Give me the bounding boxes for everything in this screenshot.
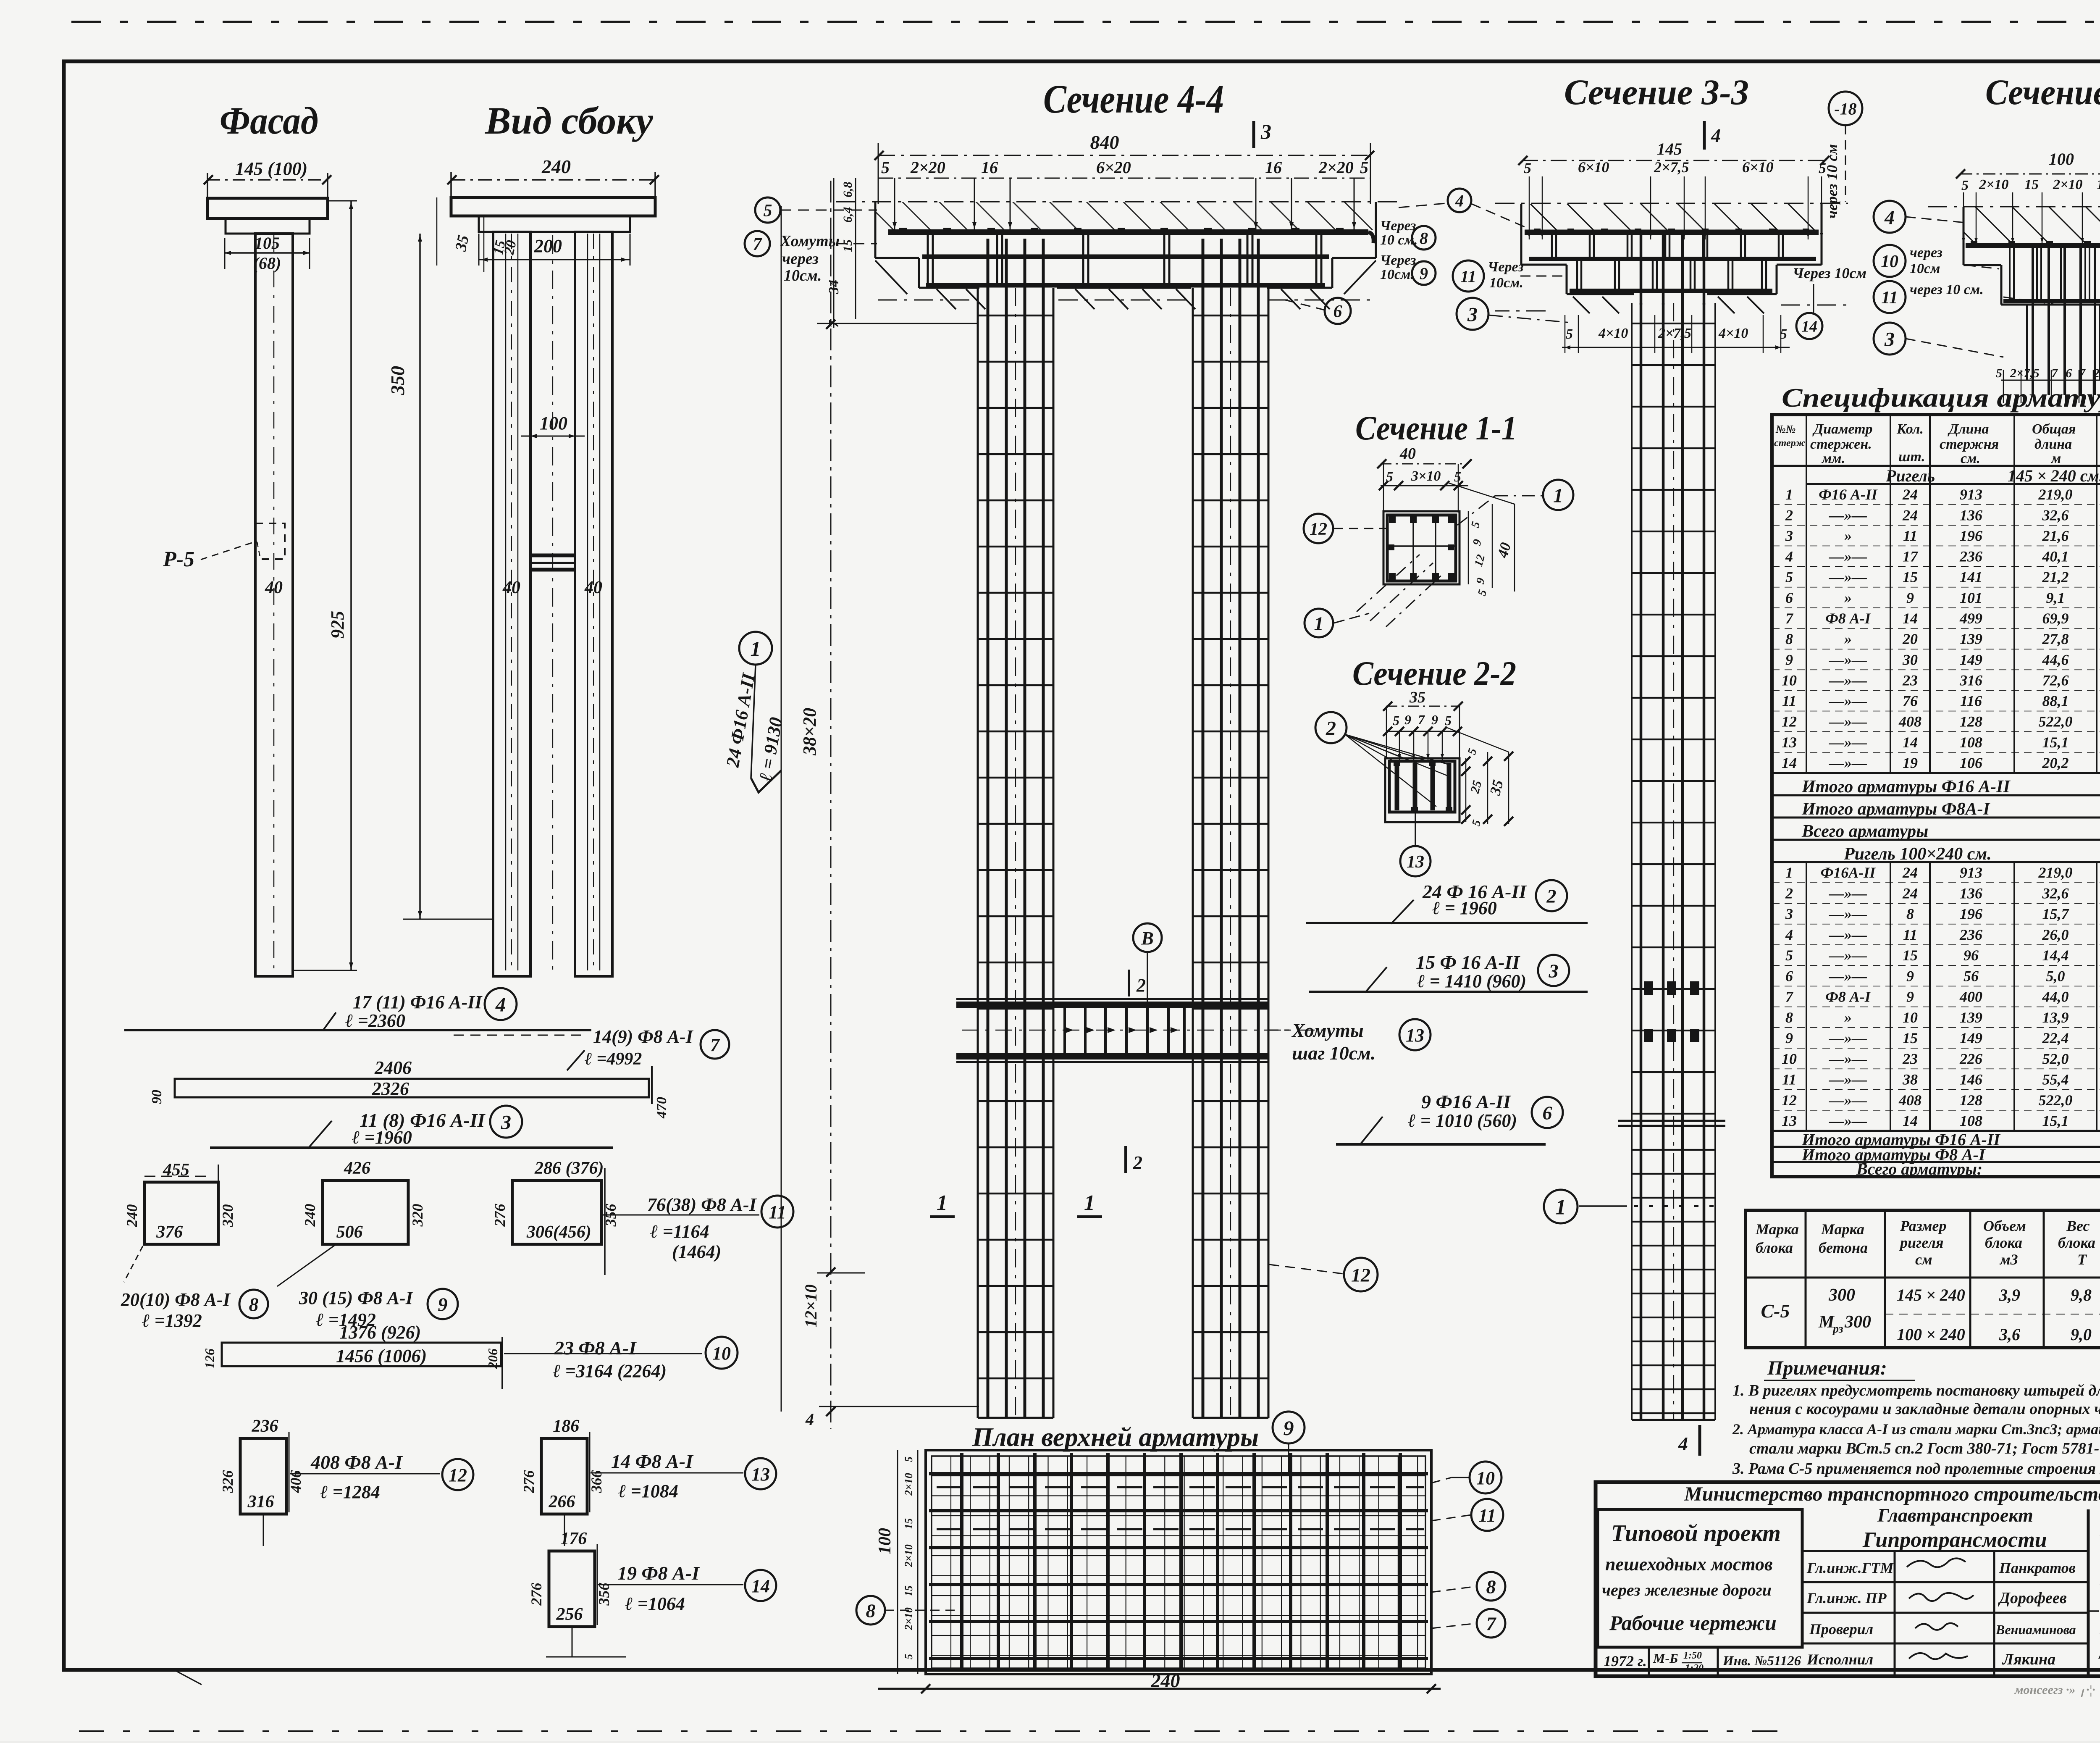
svg-text:10: 10 (712, 1343, 731, 1364)
итого rows A (1772, 772, 2100, 774)
svg-text:5: 5 (1445, 713, 1452, 728)
svg-text:13: 13 (1782, 1112, 1797, 1129)
side cap slab (451, 197, 655, 216)
circles 4 11 3 (3-3a left) (1448, 189, 1471, 212)
svg-text:4: 4 (495, 994, 506, 1016)
svg-text:см.: см. (1961, 451, 1980, 466)
svg-text:Марка: Марка (1755, 1221, 1799, 1238)
svg-text:1:50: 1:50 (1683, 1650, 1702, 1661)
section 4-4 right column cage (1192, 288, 1194, 1418)
svg-text:Сечение 4-4: Сечение 4-4 (1043, 76, 1224, 121)
svg-text:426: 426 (344, 1159, 370, 1178)
center dash-dot with arrows (962, 1030, 1323, 1031)
svg-text:2: 2 (1136, 975, 1146, 996)
svg-text:»: » (1844, 1009, 1852, 1026)
svg-text:Кол.: Кол. (1896, 421, 1924, 437)
circle 12 leader (right column) (1344, 1258, 1378, 1291)
svg-text:Через: Через (1488, 259, 1523, 275)
svg-text:Диаметр: Диаметр (1812, 421, 1873, 437)
svg-text:21,6: 21,6 (2042, 527, 2069, 544)
svg-text:376: 376 (156, 1222, 183, 1242)
svg-text:2×10: 2×10 (903, 1473, 915, 1496)
svg-text:72,6: 72,6 (2042, 672, 2069, 689)
svg-text:13: 13 (751, 1464, 770, 1485)
1-1 hatch leaders bottom-left (1357, 555, 1420, 612)
svg-text:1: 1 (937, 1191, 948, 1215)
svg-text:17: 17 (1903, 548, 1919, 565)
svg-text:2×10: 2×10 (903, 1544, 915, 1567)
svg-text:5: 5 (881, 158, 890, 177)
svg-text:через железные дороги: через железные дороги (1602, 1580, 1772, 1599)
cap mid heavy chord (922, 255, 1329, 259)
svg-text:2×20: 2×20 (1318, 158, 1354, 177)
svg-text:5: 5 (1360, 158, 1368, 177)
svg-text:6,4: 6,4 (841, 207, 855, 223)
circle 1 leader to tall column (1544, 1190, 1578, 1223)
svg-text:10: 10 (1782, 672, 1797, 689)
svg-text:5: 5 (1393, 713, 1399, 728)
1-1 inner verticals (1412, 516, 1414, 581)
plan circles (1273, 1412, 1305, 1443)
svg-text:9,0: 9,0 (2071, 1325, 2092, 1344)
svg-text:10см: 10см (1910, 261, 1940, 276)
svg-text:9: 9 (1906, 967, 1914, 984)
bent bar 12 (240, 1438, 286, 1514)
faint bottom-left curve piece (176, 1671, 202, 1685)
svg-text:9: 9 (1906, 589, 1914, 606)
svg-text:блока: блока (1756, 1239, 1793, 1256)
svg-text:через 10 см: через 10 см (1824, 144, 1840, 218)
section mark 4 (top) (1703, 121, 1706, 150)
svg-text:1456 (1006): 1456 (1006) (336, 1346, 427, 1366)
svg-text:522,0: 522,0 (2039, 1092, 2073, 1109)
svg-text:100: 100 (540, 413, 567, 434)
svg-text:326: 326 (219, 1470, 236, 1493)
side column right (575, 232, 612, 976)
svg-text:8: 8 (1906, 906, 1914, 923)
svg-text:Вид сбоку: Вид сбоку (485, 99, 654, 142)
svg-text:9: 9 (1785, 1030, 1793, 1046)
plan bottom dim 240 (878, 1688, 1441, 1690)
svg-text:№№: №№ (1775, 423, 1796, 435)
svg-text:11: 11 (1782, 693, 1796, 710)
svg-text:Итого арматуры Ф16 А-II: Итого арматуры Ф16 А-II (1801, 777, 2011, 797)
svg-text:Т: Т (2077, 1251, 2087, 1268)
svg-text:9 Ф16 А-II: 9 Ф16 А-II (1421, 1091, 1512, 1112)
right rotated dims (1-1) (1468, 511, 1469, 584)
svg-text:10: 10 (1476, 1468, 1495, 1488)
svg-text:30 (15) Ф8 А-I: 30 (15) Ф8 А-I (299, 1288, 414, 1308)
svg-text:240: 240 (302, 1204, 318, 1227)
svg-text:26,0: 26,0 (2042, 926, 2069, 943)
svg-text:2: 2 (1785, 507, 1793, 523)
circle 1 bottom-left (1-1) (1305, 609, 1333, 637)
svg-text:100: 100 (2049, 150, 2074, 168)
svg-text:стали марки ВСт.5 сп.2 Гост 38: стали марки ВСт.5 сп.2 Гост 380-71; Гост… (1749, 1440, 2100, 1457)
svg-text:101: 101 (1960, 589, 1982, 606)
circle 2 with fan leaders (1315, 712, 1347, 743)
svg-text:1376 (926): 1376 (926) (339, 1322, 421, 1343)
svg-text:рз: рз (1832, 1322, 1843, 1336)
svg-text:Р-5: Р-5 (163, 547, 194, 571)
svg-text:―»―: ―»― (1829, 885, 1867, 902)
cap outline (874, 202, 877, 258)
svg-text:128: 128 (1960, 1092, 1982, 1109)
svg-text:2×10: 2×10 (2053, 177, 2082, 192)
svg-text:9: 9 (1420, 264, 1428, 283)
svg-text:Через 10см: Через 10см (1793, 265, 1866, 281)
svg-text:7: 7 (1785, 610, 1794, 627)
svg-text:1: 1 (1314, 613, 1324, 634)
svg-text:Размер: Размер (1900, 1217, 1946, 1234)
svg-text:Через: Через (1380, 252, 1416, 268)
svg-text:―»―: ―»― (1829, 947, 1867, 964)
svg-text:913: 913 (1960, 864, 1982, 881)
svg-text:Всего арматуры:: Всего арматуры: (1856, 1159, 1982, 1178)
svg-text:40: 40 (502, 578, 520, 597)
svg-text:499: 499 (1959, 610, 1982, 627)
svg-text:9: 9 (1431, 712, 1438, 727)
svg-text:12×10: 12×10 (801, 1284, 820, 1328)
svg-text:56: 56 (1963, 967, 1979, 984)
cap bottom dash-dot + hatch ticks (878, 300, 979, 301)
block table (1746, 1210, 2100, 1348)
svg-text:монсеегз ·» ╷·¦·: монсеегз ·» ╷·¦· (2014, 1683, 2095, 1698)
svg-text:196: 196 (1960, 906, 1982, 923)
svg-text:2×10: 2×10 (1979, 177, 2008, 192)
svg-text:―»―: ―»― (1829, 548, 1867, 565)
axis dash-dot between side columns (552, 235, 553, 970)
svg-text:6,8: 6,8 (841, 182, 855, 198)
leader circle 7 + Хомуты text (745, 231, 770, 256)
svg-text:ℓ =2360: ℓ =2360 (345, 1010, 405, 1031)
rotated label 24 Ф16 А-II l=9130 + circle 1 (739, 632, 772, 665)
svg-text:13: 13 (1406, 1025, 1424, 1046)
middle sign table (1802, 1550, 2088, 1552)
svg-text:10: 10 (1782, 1050, 1797, 1067)
svg-text:―»―: ―»― (1829, 693, 1867, 710)
svg-text:5,0: 5,0 (2046, 967, 2065, 984)
svg-text:3: 3 (1260, 120, 1271, 143)
svg-text:длина: длина (2034, 436, 2072, 452)
svg-text:366: 366 (588, 1470, 605, 1493)
svg-text:266: 266 (548, 1492, 575, 1512)
plan thick horizontals (929, 1472, 1428, 1475)
svg-text:12: 12 (449, 1465, 467, 1485)
plan left dim column (897, 1450, 898, 1674)
svg-text:19 Ф8 А-I: 19 Ф8 А-I (617, 1562, 700, 1584)
svg-text:3. Рама С-5 применяется под пр: 3. Рама С-5 применяется под пролетные ст… (1732, 1460, 2100, 1477)
svg-text:Хомуты: Хомуты (1291, 1020, 1364, 1041)
svg-text:27,8: 27,8 (2042, 631, 2069, 647)
side cap step (479, 216, 630, 232)
svg-text:840: 840 (1090, 131, 1119, 153)
svg-text:4: 4 (1678, 1433, 1688, 1454)
svg-text:23: 23 (1902, 672, 1918, 689)
svg-text:4: 4 (1785, 926, 1793, 943)
svg-text:ℓ =1284: ℓ =1284 (320, 1482, 380, 1502)
svg-text:145: 145 (1657, 139, 1682, 158)
svg-text:6×10: 6×10 (1742, 159, 1774, 176)
svg-text:4: 4 (1711, 125, 1721, 146)
svg-text:7: 7 (1418, 712, 1425, 727)
svg-text:40: 40 (584, 578, 602, 597)
svg-text:1: 1 (1785, 486, 1793, 503)
svg-text:4: 4 (1884, 206, 1895, 229)
svg-text:14,4: 14,4 (2042, 947, 2069, 964)
svg-text:Главтранспроект: Главтранспроект (1877, 1504, 2033, 1526)
svg-text:8: 8 (1785, 1009, 1793, 1026)
svg-text:306(456): 306(456) (526, 1222, 591, 1242)
svg-text:Ф8 А-I: Ф8 А-I (1825, 988, 1872, 1005)
svg-text:8: 8 (249, 1294, 259, 1315)
svg-text:―»―: ―»― (1829, 672, 1867, 689)
svg-text:145 × 240 см.: 145 × 240 см. (2008, 466, 2100, 485)
svg-text:11: 11 (1460, 267, 1476, 286)
svg-text:145 × 240: 145 × 240 (1897, 1286, 1965, 1304)
cap top heavy chord (888, 229, 1368, 235)
svg-text:5: 5 (764, 201, 772, 221)
svg-text:Сечение 1-1: Сечение 1-1 (1355, 409, 1517, 447)
svg-text:30: 30 (1902, 651, 1918, 668)
svg-text:стержен.: стержен. (1810, 436, 1872, 452)
bent bar 8 (144, 1182, 218, 1244)
svg-text:блока: блока (1985, 1234, 2022, 1251)
svg-text:7: 7 (753, 235, 763, 254)
svg-text:236: 236 (1959, 926, 1982, 943)
joint tick on tall column (1618, 1120, 1725, 1122)
svg-text:2: 2 (1133, 1152, 1142, 1173)
svg-text:236: 236 (1959, 548, 1982, 565)
svg-text:145 (100): 145 (100) (235, 158, 307, 179)
svg-text:15,1: 15,1 (2042, 1112, 2069, 1129)
svg-text:Сечение 3-3: Сечение 3-3 (1564, 72, 1749, 112)
svg-text:40,1: 40,1 (2042, 548, 2069, 565)
svg-text:13: 13 (1782, 734, 1797, 751)
svg-text:шаг 10см.: шаг 10см. (1292, 1042, 1375, 1064)
svg-text:126: 126 (202, 1349, 217, 1369)
svg-text:стержня: стержня (1940, 436, 1999, 452)
circle В with leader (1133, 923, 1162, 952)
svg-text:176: 176 (560, 1529, 587, 1548)
plan thin grid (950, 1456, 951, 1668)
svg-text:108: 108 (1960, 734, 1982, 751)
svg-text:38×20: 38×20 (799, 708, 820, 756)
svg-text:Инв. №51126: Инв. №51126 (1722, 1654, 1801, 1669)
circle 12 leader (1-1) (1304, 514, 1333, 543)
svg-text:―»―: ―»― (1829, 1050, 1867, 1067)
signature scribbles (1907, 1558, 1966, 1567)
svg-text:219,0: 219,0 (2038, 864, 2073, 881)
svg-text:Ригель: Ригель (1885, 466, 1935, 485)
svg-text:5: 5 (1785, 947, 1793, 964)
1-1 rebar dots (1389, 516, 1396, 523)
3-3a hatch ticks below (1573, 297, 1590, 313)
svg-text:105: 105 (255, 234, 280, 252)
svg-text:13: 13 (1407, 852, 1424, 872)
svg-text:9: 9 (1284, 1416, 1294, 1440)
svg-text:20,2: 20,2 (2042, 755, 2069, 771)
connector bars between columns (530, 554, 575, 557)
svg-text:ℓ = 1410 (960): ℓ = 1410 (960) (1417, 971, 1526, 991)
left cell (1598, 1509, 1802, 1647)
svg-text:2×7,5: 2×7,5 (1654, 159, 1689, 176)
svg-text:через: через (1910, 245, 1942, 260)
svg-text:14: 14 (751, 1576, 770, 1596)
svg-text:6×10: 6×10 (1578, 159, 1609, 176)
svg-text:9: 9 (1906, 988, 1914, 1005)
svg-text:5: 5 (1996, 366, 2002, 380)
svg-text:10см.: 10см. (784, 267, 822, 284)
svg-text:408 Ф8 А-I: 408 Ф8 А-I (310, 1451, 403, 1473)
column rebar into cap (987, 239, 990, 290)
svg-text:3: 3 (501, 1111, 511, 1133)
svg-text:»: » (1844, 527, 1852, 544)
svg-text:Дорофеев: Дорофеев (1998, 1589, 2067, 1607)
svg-text:12: 12 (1310, 520, 1327, 539)
svg-text:2326: 2326 (372, 1078, 409, 1099)
svg-text:11: 11 (1903, 926, 1917, 943)
svg-text:40: 40 (1399, 445, 1416, 463)
svg-text:356: 356 (596, 1583, 612, 1606)
plan heavy dashed rebar rows (937, 1486, 1424, 1488)
svg-text:5: 5 (1524, 160, 1531, 176)
svg-text:728/1: 728/1 (2097, 1612, 2100, 1670)
3-3b stirrups (2009, 247, 2011, 300)
svg-text:мм.: мм. (1821, 451, 1845, 466)
svg-text:ℓ = 1010 (560): ℓ = 1010 (560) (1408, 1110, 1517, 1131)
svg-text:м3: м3 (1999, 1251, 2018, 1268)
svg-text:―»―: ―»― (1829, 1092, 1867, 1109)
svg-text:300: 300 (1844, 1312, 1871, 1332)
svg-text:320: 320 (409, 1204, 426, 1227)
svg-text:см: см (1915, 1251, 1932, 1268)
dim 350 vertical (419, 234, 421, 919)
svg-text:―»―: ―»― (1829, 1030, 1867, 1046)
svg-text:1: 1 (1084, 1191, 1095, 1215)
svg-text:1: 1 (1555, 1196, 1566, 1220)
section mark 4 (bottom) (1698, 1425, 1701, 1456)
svg-text:6: 6 (1543, 1102, 1552, 1124)
svg-text:7: 7 (710, 1035, 720, 1055)
svg-text:Исполнил: Исполнил (1806, 1651, 1873, 1668)
left tall dim 38x20 / 12x10 (781, 206, 782, 1412)
svg-text:8: 8 (1486, 1576, 1496, 1598)
svg-text:15: 15 (2024, 177, 2039, 192)
cap stirrups (927, 234, 929, 285)
svg-text:Через: Через (1380, 218, 1416, 234)
svg-text:6: 6 (1333, 302, 1342, 321)
svg-text:219,0: 219,0 (2038, 486, 2073, 503)
svg-text:17 (11) Ф16 А-II: 17 (11) Ф16 А-II (353, 992, 483, 1012)
svg-text:В: В (1141, 928, 1153, 949)
svg-text:11: 11 (1903, 527, 1917, 544)
svg-text:Типовой проект: Типовой проект (1611, 1520, 1781, 1546)
svg-text:20: 20 (1902, 631, 1918, 647)
svg-text:1: 1 (1785, 864, 1793, 881)
svg-text:44,6: 44,6 (2042, 651, 2069, 668)
svg-text:35: 35 (1409, 689, 1425, 706)
svg-text:23: 23 (1902, 1050, 1918, 1067)
svg-text:6: 6 (1785, 967, 1793, 984)
svg-text:ℓ = 1960: ℓ = 1960 (1432, 898, 1497, 918)
svg-text:5: 5 (1961, 178, 1969, 193)
bent bar 14 (549, 1551, 595, 1627)
svg-text:32,6: 32,6 (2042, 885, 2069, 902)
svg-text:3,9: 3,9 (1999, 1286, 2020, 1304)
svg-text:276: 276 (528, 1583, 545, 1606)
svg-text:м: м (2050, 451, 2061, 466)
svg-text:8: 8 (1785, 631, 1793, 647)
svg-text:136: 136 (1960, 885, 1982, 902)
svg-text:ℓ =3164 (2264): ℓ =3164 (2264) (553, 1361, 667, 1381)
svg-text:Гипротрансмости: Гипротрансмости (1862, 1528, 2047, 1552)
svg-text:»: » (1844, 631, 1852, 647)
svg-text:План верхней арматуры: План верхней арматуры (972, 1422, 1259, 1452)
svg-text:13,9: 13,9 (2042, 1009, 2069, 1026)
leader dash to 3-3a circle 4 (1399, 203, 1446, 208)
svg-text:ℓ =1164: ℓ =1164 (650, 1221, 709, 1242)
svg-text:пешеходных мостов: пешеходных мостов (1605, 1554, 1773, 1575)
svg-text:196: 196 (1960, 527, 1982, 544)
2-2 outer square (1385, 758, 1459, 822)
stirrup verticals between columns (1063, 1007, 1066, 1054)
svg-text:ℓ =1960: ℓ =1960 (352, 1127, 412, 1148)
3-3b lower heavy chord (2003, 299, 2100, 303)
facade cap slab (207, 198, 328, 218)
side column left (493, 232, 530, 976)
svg-text:9: 9 (438, 1294, 448, 1315)
spec table frame (1772, 415, 2100, 1177)
svg-text:(1464): (1464) (672, 1241, 721, 1262)
circle 1 top-right (1-1) (1543, 480, 1573, 510)
3-3a column verticals protruding into cap (1640, 235, 1643, 305)
svg-text:16: 16 (981, 158, 998, 177)
svg-text:146: 146 (1960, 1071, 1982, 1088)
svg-text:―»―: ―»― (1829, 1112, 1867, 1129)
svg-text:24: 24 (1902, 885, 1918, 902)
svg-text:226: 226 (1959, 1050, 1982, 1067)
svg-text:―»―: ―»― (1829, 651, 1867, 668)
svg-text:149: 149 (1960, 1030, 1982, 1046)
facade cap step (226, 218, 310, 234)
svg-text:44,0: 44,0 (2042, 988, 2069, 1005)
svg-text:23 Ф8 А-I: 23 Ф8 А-I (554, 1337, 637, 1359)
svg-text:-18: -18 (1834, 99, 1856, 118)
svg-text:6: 6 (2066, 366, 2072, 380)
svg-text:Вениаминова: Вениаминова (1995, 1622, 2076, 1637)
circle 13 below (2-2) (1400, 846, 1431, 876)
svg-text:Вес: Вес (2066, 1217, 2090, 1234)
svg-text:14: 14 (1903, 734, 1918, 751)
svg-text:206: 206 (485, 1349, 500, 1369)
svg-text:ригеля: ригеля (1899, 1234, 1943, 1251)
svg-text:шт.: шт. (1898, 449, 1925, 465)
svg-text:5: 5 (1819, 160, 1826, 176)
svg-text:96: 96 (1963, 947, 1979, 964)
svg-text:5: 5 (903, 1456, 915, 1462)
svg-text:4: 4 (805, 1410, 814, 1429)
svg-text:С-5: С-5 (1761, 1300, 1790, 1322)
svg-text:ℓ =1084: ℓ =1084 (618, 1481, 678, 1501)
svg-text:200: 200 (534, 236, 562, 256)
svg-text:100 × 240: 100 × 240 (1897, 1325, 1965, 1344)
svg-text:9,1: 9,1 (2046, 589, 2065, 606)
svg-text:Сечение 3-3: Сечение 3-3 (1985, 72, 2100, 112)
svg-text:52,0: 52,0 (2042, 1050, 2069, 1067)
svg-text:149: 149 (1960, 651, 1982, 668)
svg-text:1: 1 (1553, 484, 1563, 507)
